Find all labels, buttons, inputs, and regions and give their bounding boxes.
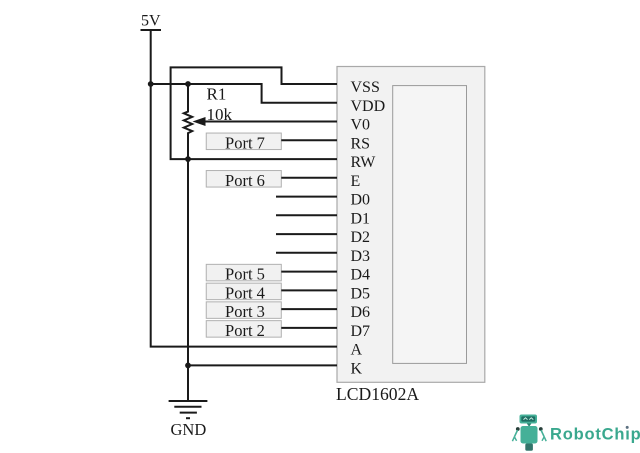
robot body [521, 426, 538, 444]
robot neck [527, 424, 532, 427]
wire D4 net [281, 271, 337, 273]
wire VDD net from 5V rail [151, 84, 337, 103]
robot head [520, 415, 538, 424]
wire VSS and RW net (tied to ground rail) [171, 67, 337, 159]
svg-text:D6: D6 [351, 304, 371, 321]
wire K net [188, 364, 337, 366]
robot eyes band [521, 416, 535, 421]
svg-text:RS: RS [351, 135, 371, 152]
svg-text:VSS: VSS [351, 79, 380, 96]
svg-text:K: K [351, 360, 363, 377]
svg-text:VDD: VDD [351, 98, 386, 115]
svg-text:Port 6: Port 6 [225, 171, 265, 190]
Port 7 box [206, 133, 281, 152]
RobotChip logo i-dot (slate colored) [625, 425, 630, 430]
ground symbol [169, 401, 208, 418]
Port 6 box [206, 171, 281, 190]
svg-text:A: A [351, 342, 363, 359]
wire D5 net [281, 289, 337, 291]
wire E net [281, 177, 337, 179]
svg-text:Port 3: Port 3 [225, 302, 265, 321]
robot left shoulder [516, 427, 520, 431]
svg-text:D2: D2 [351, 229, 371, 246]
Port 2 box [206, 321, 281, 340]
robot left arm [514, 430, 517, 437]
Port 3 box [206, 302, 281, 321]
robot right claw [542, 437, 546, 441]
svg-text:5V: 5V [141, 13, 161, 30]
Port 5 box [206, 264, 281, 283]
robot legs [525, 444, 533, 451]
LCD1602A module U1 [337, 67, 485, 383]
wire D1 stub [276, 214, 337, 216]
svg-text:Port 7: Port 7 [225, 133, 265, 152]
wire D7 net [281, 327, 337, 329]
RobotChip logo robot icon [512, 415, 546, 451]
5V power symbol [141, 13, 162, 31]
svg-text:D7: D7 [351, 323, 371, 340]
wire D3 stub [276, 252, 337, 254]
svg-text:RW: RW [351, 154, 377, 171]
svg-text:D1: D1 [351, 210, 371, 227]
svg-text:D5: D5 [351, 285, 371, 302]
junction on 5V rail [148, 81, 154, 87]
resistor R1 (potentiometer) [184, 84, 192, 159]
wire V0 with wiper arrow [193, 117, 338, 126]
wire D2 stub [276, 233, 337, 235]
svg-text:Port 4: Port 4 [225, 283, 265, 302]
svg-text:Port 5: Port 5 [225, 265, 265, 284]
junction K wire [185, 363, 191, 369]
junction R1 top [185, 81, 191, 87]
svg-text:D0: D0 [351, 192, 371, 209]
junction R1 bottom / RW [185, 156, 191, 162]
svg-text:V0: V0 [351, 117, 371, 134]
svg-text:GND: GND [171, 420, 207, 439]
svg-text:D4: D4 [351, 267, 371, 284]
svg-text:D3: D3 [351, 248, 371, 265]
wire D0 stub [276, 196, 337, 198]
svg-text:E: E [351, 173, 361, 190]
wire D6 net [281, 308, 337, 310]
ground rail vertical wire [187, 159, 189, 401]
robot eyes [524, 418, 528, 420]
Port 4 box [206, 283, 281, 302]
LCD screen inner rectangle [393, 86, 467, 364]
svg-text:R1: R1 [207, 85, 227, 104]
svg-text:LCD1602A: LCD1602A [336, 384, 419, 404]
wire RS net [281, 139, 337, 141]
robot right shoulder [539, 427, 543, 431]
wire 5V rail down to pin A [151, 30, 337, 347]
robot right arm [541, 430, 544, 437]
robot left claw [512, 437, 516, 441]
svg-text:Port 2: Port 2 [225, 321, 265, 340]
